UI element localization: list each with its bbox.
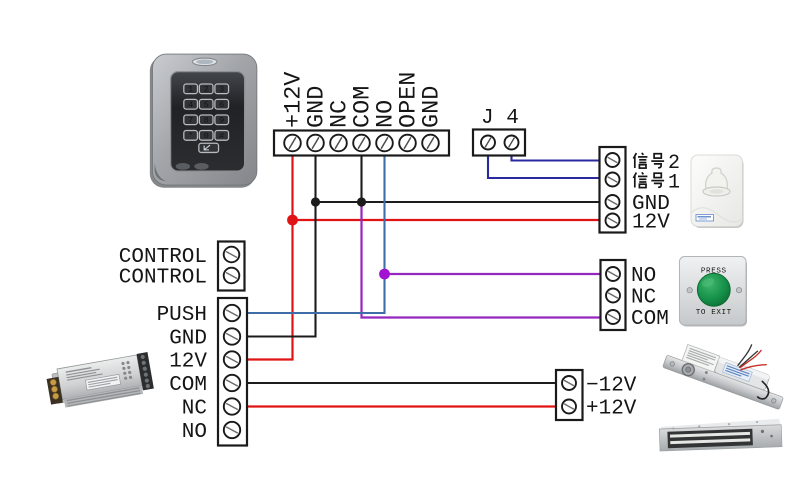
label GND (doorbell): [632, 193, 670, 216]
wire: black COM of push block to -12V: [247, 382, 556, 384]
label +12V: [586, 398, 637, 421]
junction node: red +12V: [287, 215, 298, 226]
pin label GND2: [419, 86, 446, 128]
svg-text:GND: GND: [419, 86, 446, 128]
exit button device: [680, 257, 748, 327]
svg-text:PUSH: PUSH: [157, 304, 207, 327]
label -12V: [586, 375, 637, 398]
terminal block: push block (6 screws): [218, 298, 247, 446]
wire: black branch to doorbell GND: [316, 201, 600, 203]
junction node: GND: [311, 197, 320, 206]
svg-text:−12V: −12V: [586, 375, 637, 398]
wire: purple from COM node down to exit button COM: [362, 202, 601, 318]
terminal block: J4: [473, 130, 525, 156]
svg-text:CONTROL: CONTROL: [119, 267, 207, 290]
label GND (push block): [169, 328, 207, 351]
label 12V (push block): [169, 351, 207, 374]
magnetic lock device: [659, 419, 782, 451]
pin label NC: [327, 100, 354, 128]
terminal block: keypad main (7 screws): [274, 131, 449, 156]
svg-text:8: 8: [204, 116, 209, 126]
wire: black GND vertical from keypad terminal to GND of push block: [247, 156, 316, 337]
svg-text:2: 2: [204, 85, 209, 95]
svg-text:12V: 12V: [632, 212, 670, 235]
label CONTROL 2: [119, 267, 207, 290]
svg-text:+12V: +12V: [586, 398, 637, 421]
svg-text:1: 1: [188, 85, 193, 95]
svg-text:3: 3: [219, 85, 224, 95]
terminal block: exit button (3 screws): [601, 260, 626, 330]
terminal block: lock power (2 screws): [556, 370, 583, 420]
terminal block: control (2 screws): [218, 242, 245, 291]
svg-text:COM: COM: [169, 374, 207, 397]
keypad device: [150, 54, 257, 188]
label J 4: [481, 107, 519, 130]
label CONTROL 1: [119, 246, 207, 269]
wire: red +12V vertical from keypad terminal down to 12V of push block: [247, 156, 293, 360]
svg-text:NO: NO: [182, 421, 207, 444]
pin label NO: [373, 100, 400, 128]
terminal block: doorbell (4 screws): [600, 147, 626, 233]
svg-text:0: 0: [204, 131, 209, 141]
wire: blue from keypad NO terminal to PUSH: [247, 156, 385, 314]
svg-text:NC: NC: [182, 398, 207, 421]
label 12V (doorbell): [632, 212, 670, 235]
pin label COM: [350, 86, 377, 128]
wire: navy J4 pin2 to bell signal2: [512, 156, 600, 161]
junction node: COM/GND: [357, 197, 366, 206]
svg-text:7: 7: [188, 116, 193, 126]
wire: black COM stub from keypad terminal: [360, 156, 362, 203]
svg-text:6: 6: [219, 100, 224, 110]
pin label GND: [304, 86, 331, 128]
wire: red branch to doorbell 12V: [293, 219, 600, 221]
label COM (push block): [169, 374, 207, 397]
svg-text:12V: 12V: [169, 351, 207, 374]
label signal1 (Chinese): [633, 172, 680, 195]
svg-text:J 4: J 4: [481, 107, 519, 130]
pin label +12V: [281, 72, 308, 128]
label signal2 (Chinese): [633, 152, 680, 175]
label NC (push block): [182, 398, 207, 421]
label NC (exit): [631, 287, 656, 310]
electric bolt lock device: [663, 318, 790, 409]
junction node: purple NO: [379, 269, 390, 280]
wire: purple branch to exit button NO: [385, 273, 601, 275]
svg-text:GND: GND: [169, 328, 207, 351]
label NO (exit): [631, 265, 656, 288]
label PUSH: [157, 304, 207, 327]
svg-text:NO: NO: [631, 265, 656, 288]
label COM (exit): [631, 308, 669, 331]
svg-text:#: #: [219, 131, 224, 141]
wire: red NC of push block to +12V: [247, 405, 556, 407]
svg-text:9: 9: [219, 116, 224, 126]
svg-text:1: 1: [668, 172, 680, 195]
wire: navy J4 pin1 to bell signal1: [488, 156, 600, 179]
power supply device: [45, 352, 154, 410]
svg-text:COM: COM: [631, 308, 669, 331]
label NO (push block): [182, 421, 207, 444]
doorbell device: [691, 155, 744, 228]
svg-text:NC: NC: [631, 287, 656, 310]
svg-text:TO EXIT: TO EXIT: [696, 309, 732, 317]
svg-text:4: 4: [188, 100, 193, 110]
pin label OPEN: [396, 72, 423, 128]
svg-text:5: 5: [204, 100, 209, 110]
svg-text:*: *: [188, 131, 193, 141]
